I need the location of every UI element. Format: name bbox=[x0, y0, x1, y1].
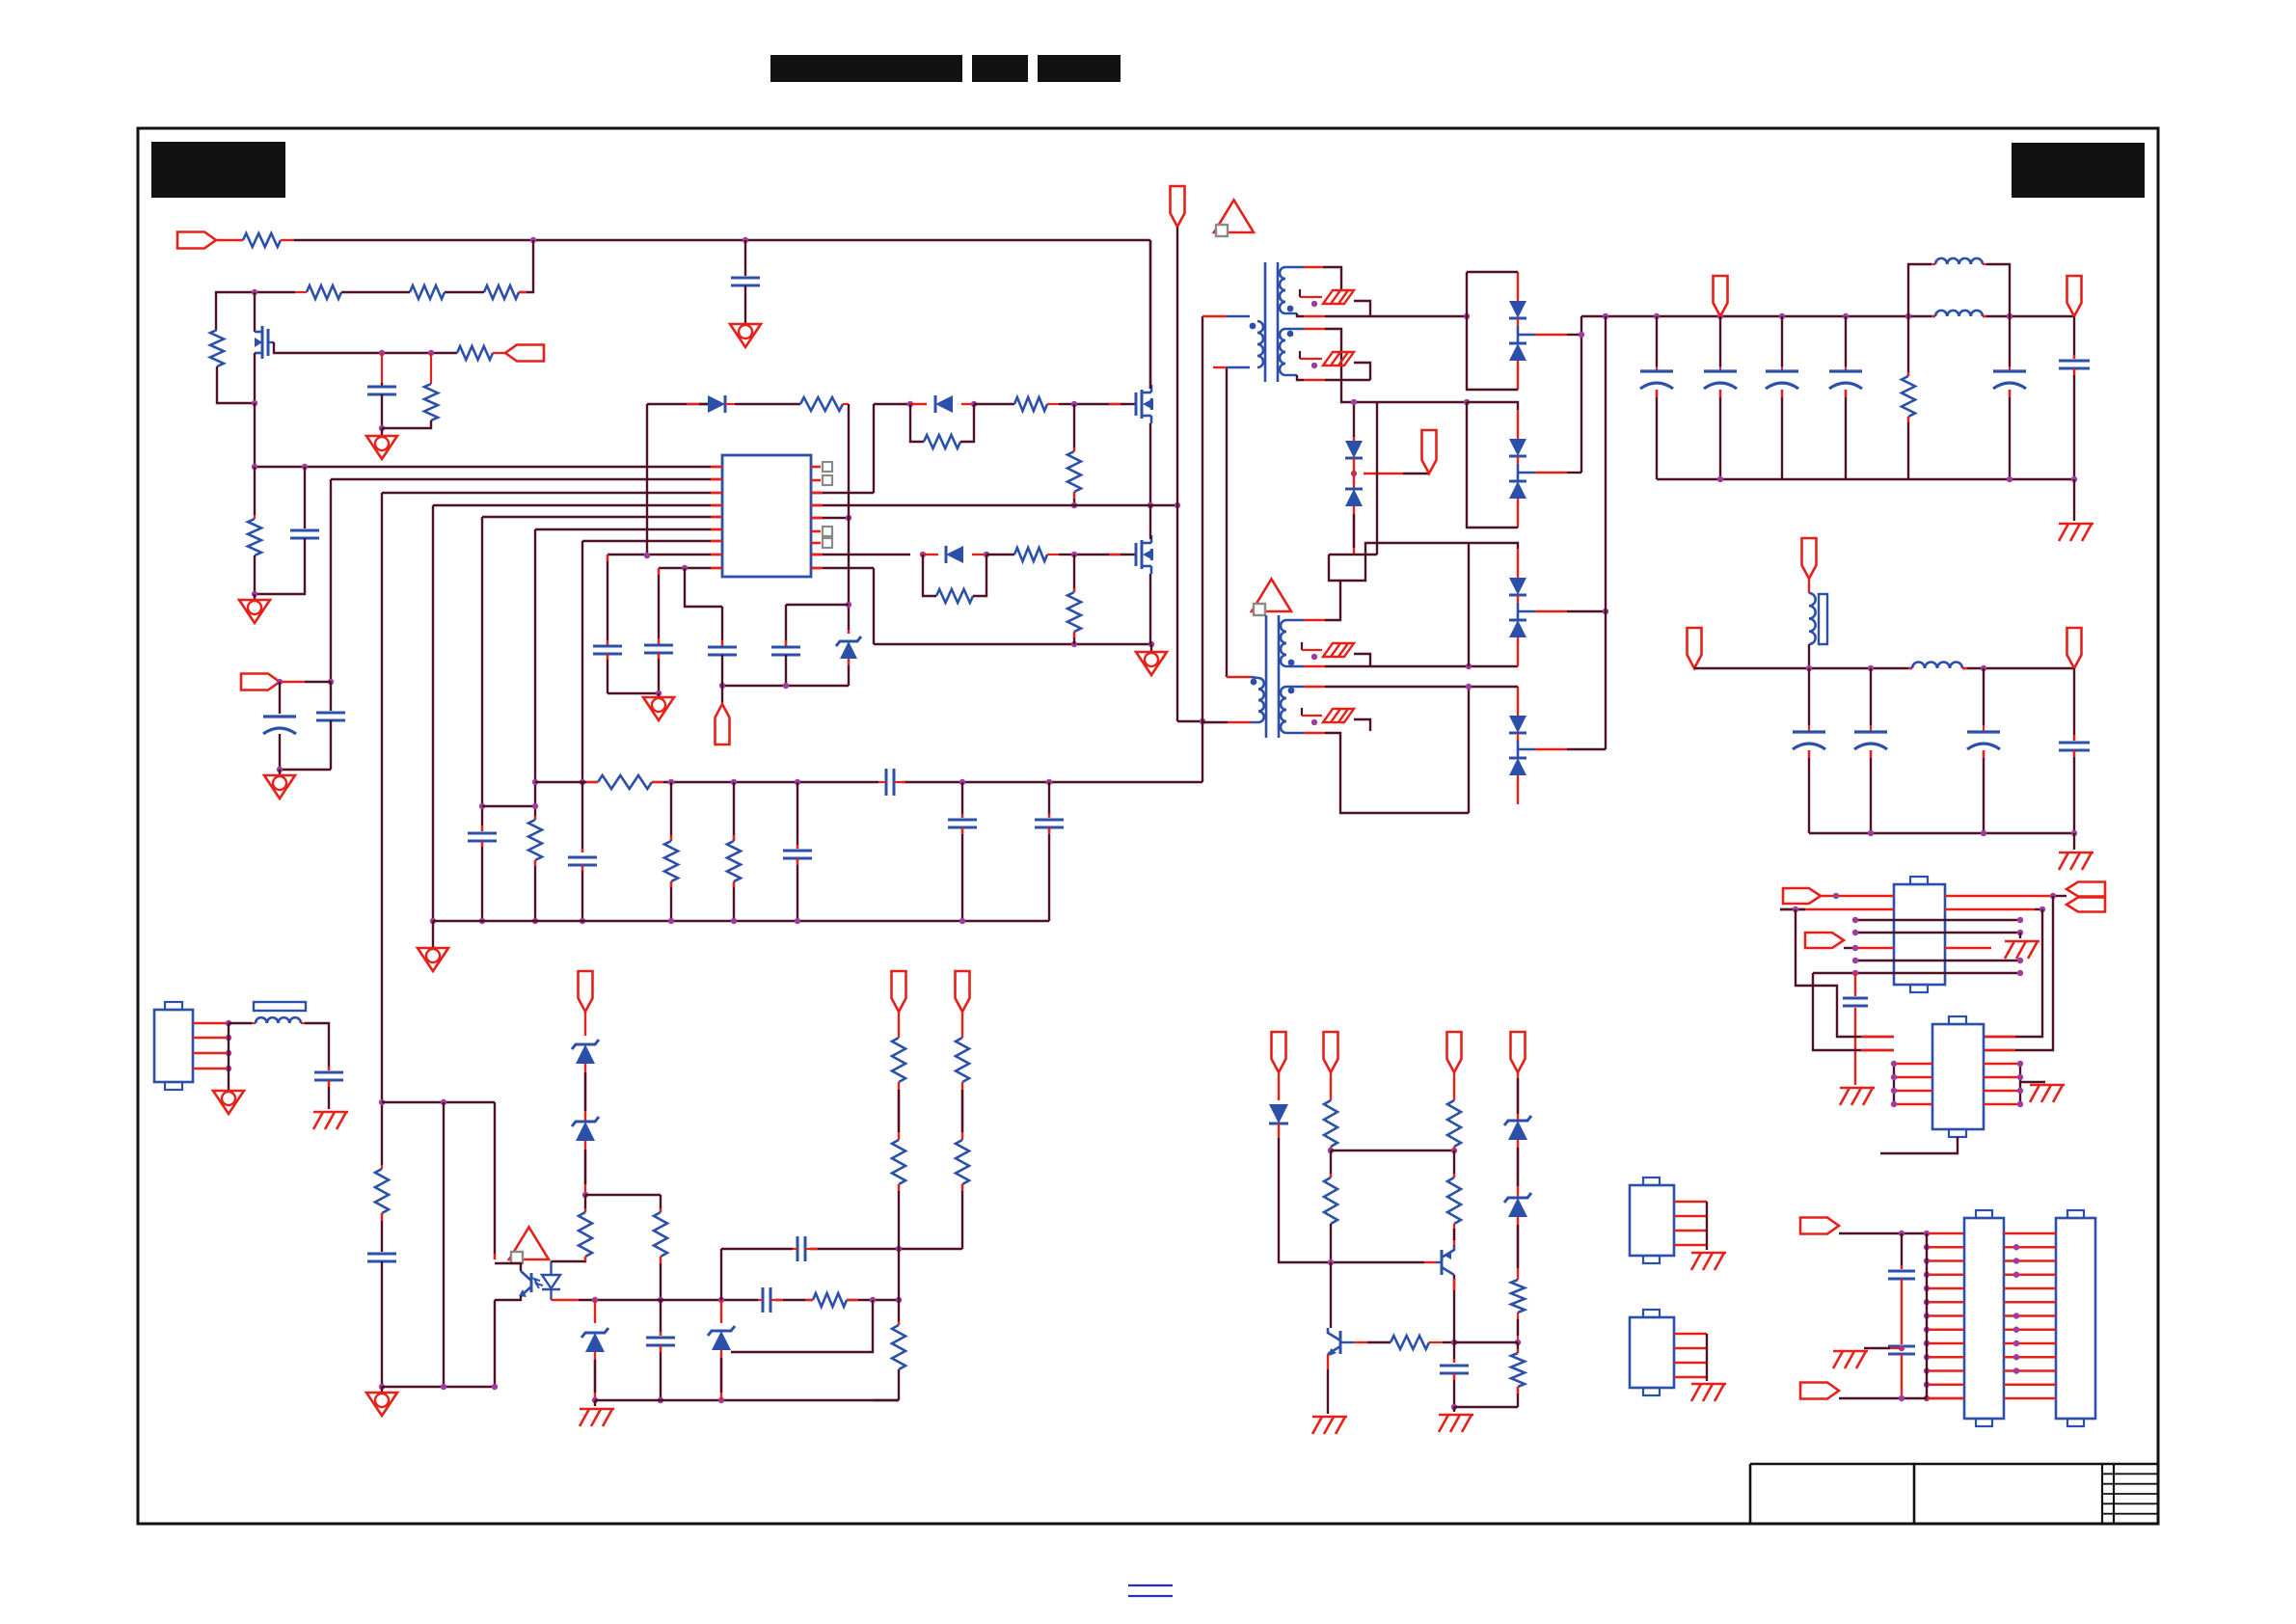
wire clamp bottom bbox=[1353, 506, 1355, 555]
wire earth drop2 bbox=[2073, 833, 2075, 850]
wire q4 collector bbox=[1453, 1275, 1455, 1342]
diode D1 bbox=[699, 395, 735, 413]
wire rail1452 bbox=[595, 1399, 899, 1401]
node v604-811 bbox=[580, 779, 585, 785]
node rail1-1784 bbox=[1717, 313, 1723, 319]
wire v513 bbox=[494, 1102, 496, 1259]
wire u2 right pins bbox=[1984, 1064, 2020, 1104]
wire v749 bbox=[721, 607, 723, 646]
wire r25 bottom bbox=[898, 1184, 900, 1249]
node u3-in1 bbox=[1833, 893, 1839, 899]
wire d1-r bbox=[735, 403, 800, 405]
wire v2095 bbox=[2020, 1064, 2045, 1104]
wire v1998 bbox=[1926, 1233, 1928, 1398]
wire u3-u2 wrap right2 bbox=[1984, 896, 2053, 1050]
node v671-576 bbox=[644, 553, 650, 558]
node flagrow bbox=[328, 679, 334, 685]
node u3r954r bbox=[2017, 917, 2023, 923]
resistor R7 vertical bbox=[424, 353, 438, 420]
wire gate1 row bbox=[874, 403, 910, 405]
connector flag OUT2 bbox=[2067, 276, 2082, 316]
node bus1348-932 bbox=[896, 1297, 902, 1303]
node r30-j bbox=[1328, 1148, 1334, 1153]
pin U1 left y589 bbox=[711, 567, 722, 570]
node ret2-2151 bbox=[2071, 830, 2077, 836]
wire q3 base link bbox=[1354, 1341, 1391, 1343]
node u3-out1 bbox=[2050, 893, 2056, 899]
capacitor CO5 bbox=[1993, 316, 2026, 479]
wire 300V rail bbox=[294, 239, 1150, 241]
node cn-1972b bbox=[1899, 1345, 1904, 1351]
wire rail2 return bbox=[1809, 832, 2074, 834]
node dz3-j bbox=[582, 1192, 588, 1198]
node c9-bot bbox=[656, 690, 662, 696]
pin U1 left y549 bbox=[711, 528, 722, 531]
capacitor C12 series bbox=[878, 769, 905, 796]
fuse F2 bbox=[1323, 352, 1354, 365]
pin U1 left y561 bbox=[711, 540, 722, 543]
wire c16 bottom bbox=[328, 1080, 330, 1109]
ground sig G2 bbox=[730, 324, 761, 347]
capacitor C10 bbox=[708, 647, 737, 655]
wire bus523 bbox=[849, 504, 1177, 506]
wire j4 pin wires bbox=[1924, 1244, 1964, 1401]
wire h1295 bbox=[721, 1248, 962, 1250]
resistor R20 vertical bbox=[375, 1169, 389, 1213]
fuse F1 bbox=[1323, 290, 1354, 304]
wire t1 sec2 bottom bbox=[1285, 375, 1370, 380]
wire v1640 taps bbox=[1580, 316, 1582, 473]
capacitor C16 bbox=[314, 1072, 343, 1080]
wire u3-u2 wrap left2 bbox=[1813, 973, 1894, 1050]
zener DZ1 bbox=[836, 636, 861, 659]
ground earth GE11 bbox=[1833, 1351, 1868, 1368]
node g2-l bbox=[920, 552, 926, 557]
resistor R22 bbox=[654, 1212, 667, 1257]
node rail1-1665 bbox=[1603, 313, 1608, 319]
wire ds4 tap bbox=[1518, 748, 1606, 751]
connector flag CN-A bbox=[1800, 1218, 1839, 1234]
node v685-1348 bbox=[658, 1297, 663, 1303]
wire u3 row967 bbox=[1855, 932, 2020, 934]
node v685-1452 bbox=[658, 1397, 663, 1403]
capacitor C14 bbox=[948, 782, 977, 921]
node h1143-460 bbox=[441, 1099, 446, 1105]
wire clamp tap bbox=[1364, 473, 1429, 474]
fuse F4 bbox=[1323, 709, 1354, 722]
connector flag FB3 bbox=[1447, 1032, 1462, 1072]
node rail-junction2 bbox=[743, 237, 748, 243]
node u3-in2 bbox=[1793, 907, 1798, 912]
pin U1 nc3 bbox=[811, 527, 832, 536]
node rail668-1194 bbox=[1148, 641, 1154, 647]
wire u3 out1 bbox=[1945, 895, 2066, 898]
wire IC bus row y549 bbox=[535, 528, 722, 530]
wire u3 en bbox=[1844, 947, 1894, 949]
wire v685 bbox=[660, 1195, 662, 1212]
wire q1 source bbox=[1149, 423, 1151, 505]
node u3r1009r bbox=[2017, 970, 2023, 976]
ground earth GE10 bbox=[1691, 1384, 1726, 1401]
wire c20 bottom bbox=[381, 1261, 383, 1387]
capacitor C5 polarized bbox=[263, 682, 296, 770]
wire v449 bbox=[432, 505, 434, 921]
node f1-dot bbox=[1311, 301, 1317, 307]
wire q4c cap bbox=[1453, 1342, 1455, 1363]
pin U1 nc4 bbox=[811, 538, 832, 548]
node u2r-1145 bbox=[2017, 1101, 2023, 1107]
node f4-dot bbox=[1311, 719, 1317, 725]
resistor R30 bbox=[1324, 1100, 1337, 1147]
ground earth GE6 bbox=[2030, 1085, 2065, 1102]
zener DZ11 bbox=[1504, 1193, 1531, 1217]
wire g1-res bbox=[974, 403, 1014, 405]
wire r6 bottom bbox=[217, 366, 255, 403]
resistor R28 bbox=[956, 1140, 969, 1184]
wire gate row bbox=[274, 342, 457, 353]
node u2r-1117 bbox=[2017, 1074, 2023, 1080]
node tap3 bbox=[1603, 609, 1608, 614]
connector J4 bbox=[1964, 1210, 2004, 1426]
resistor R24 bbox=[892, 1038, 905, 1082]
wire rail2 bbox=[1694, 667, 2074, 669]
connector flag EN bbox=[1805, 933, 1844, 948]
wire r28 bottom bbox=[961, 1184, 963, 1249]
connector flag CN-B bbox=[1800, 1383, 1839, 1399]
wire r9 bottom bbox=[534, 860, 536, 921]
wire v264 lower bbox=[254, 467, 256, 519]
capacitor C15 bbox=[1035, 782, 1064, 921]
node r35-j bbox=[1515, 1340, 1521, 1345]
node q5-bottom bbox=[252, 400, 257, 406]
node b955-761 bbox=[731, 918, 737, 924]
ground sig G1 bbox=[366, 428, 397, 459]
wire dz2-dz3 bbox=[584, 1064, 586, 1123]
wire vref drop bbox=[721, 686, 723, 704]
connector flag VCC1 bbox=[241, 674, 331, 690]
node g1-l bbox=[907, 401, 913, 407]
wire j2 gnd bbox=[1706, 1202, 1708, 1250]
wire q1 drain bbox=[1149, 240, 1151, 389]
node u3r967r bbox=[2017, 930, 2023, 935]
node c32-bot bbox=[1451, 1404, 1457, 1410]
node cn-1998 bbox=[1924, 1231, 1930, 1236]
wire clamp drop bbox=[1353, 402, 1355, 441]
warning triangle W2 bbox=[1252, 579, 1291, 615]
capacitor C23 series bbox=[793, 1236, 818, 1261]
wire v1272 primary link bbox=[1226, 367, 1228, 677]
connector flag VREF bbox=[716, 704, 730, 744]
node rail-junction bbox=[530, 237, 536, 243]
node rail1438-513 bbox=[492, 1384, 498, 1390]
transistor Q2 mosfet bbox=[1128, 535, 1153, 574]
resistor R23 bbox=[805, 1293, 858, 1307]
node j1-1108 bbox=[226, 1066, 231, 1071]
wire v396 long bbox=[381, 493, 383, 1169]
capacitor CO6 bbox=[2059, 316, 2090, 479]
wire U1 pin DRV2 bbox=[811, 554, 910, 555]
zener DZ5 bbox=[708, 1300, 735, 1400]
node dz4-bot bbox=[592, 1397, 598, 1403]
node v555-836 bbox=[532, 803, 538, 809]
wire clamp mid bbox=[1353, 458, 1355, 489]
node v555-811 bbox=[532, 779, 538, 785]
node sec4-1523 bbox=[1466, 684, 1472, 690]
wire dz10-dz11 bbox=[1517, 1140, 1519, 1199]
wire f4 stub bbox=[1302, 708, 1370, 731]
ground earth GE13 bbox=[580, 1400, 614, 1426]
wire c9 bottom bbox=[658, 653, 660, 693]
resistor R31 bbox=[1324, 1150, 1337, 1224]
wire r33 bottom bbox=[1453, 1147, 1455, 1150]
transistor Q5 startup mosfet bbox=[255, 292, 274, 403]
wire cap bottoms bbox=[280, 769, 331, 771]
node sec1-1521 bbox=[1464, 313, 1470, 319]
node bus523-1221 bbox=[1175, 502, 1180, 508]
wire l5 out bbox=[301, 1023, 329, 1070]
warning triangle W1 bbox=[1214, 200, 1254, 236]
capacitor CO1718 bbox=[1640, 316, 1673, 479]
wire c32 bottom bbox=[1453, 1373, 1455, 1407]
connector J2 bbox=[1630, 1177, 1707, 1263]
capacitor C3 bbox=[731, 278, 760, 285]
node rail2-2057 bbox=[1981, 665, 1986, 671]
zener DZ4 bbox=[581, 1300, 608, 1400]
wire u3 en right bbox=[1945, 947, 1991, 950]
wire U1 pin VS bus bbox=[811, 504, 849, 506]
resistor RO1 vertical bbox=[1902, 316, 1915, 479]
wire v1428 bbox=[1376, 402, 1378, 555]
wire h1193 bbox=[1331, 1150, 1454, 1151]
wire ds2 tap bbox=[1518, 472, 1581, 474]
node snub-761 bbox=[731, 779, 737, 785]
redacted title bar 3 bbox=[1038, 55, 1121, 82]
pin U1 left y497 bbox=[711, 478, 722, 481]
wire u3 row1009 bbox=[1813, 972, 2020, 974]
wire dz11 down bbox=[1517, 1217, 1519, 1280]
node bus1348-748 bbox=[718, 1297, 724, 1303]
capacitor C4 bbox=[290, 467, 319, 538]
wire dz3 down bbox=[584, 1141, 586, 1195]
wire v1665 bbox=[1605, 316, 1607, 749]
wire r3-r4 bbox=[445, 291, 484, 293]
diode D2 bbox=[910, 395, 974, 413]
wire c8 bottom bbox=[607, 654, 608, 693]
inductor L3 bead bbox=[1809, 579, 1827, 644]
wire j1 to L5 bbox=[229, 1022, 256, 1024]
node sec2-1521 bbox=[1464, 399, 1470, 405]
wire cn bottom bbox=[1839, 1397, 1964, 1399]
node ret2-2057 bbox=[1981, 830, 1986, 836]
wire IC bus row y536 bbox=[482, 516, 722, 518]
wire u3 row996 bbox=[1855, 960, 2020, 961]
node fb-880 bbox=[846, 515, 851, 521]
capacitor CP1940 bbox=[1854, 668, 1887, 833]
capacitor C32 bbox=[1440, 1366, 1469, 1373]
wire v748 up bbox=[720, 1249, 722, 1300]
wire v555 bbox=[534, 529, 536, 820]
wire r32 to j bbox=[1443, 1341, 1454, 1343]
diode D3 bbox=[923, 546, 986, 563]
node u3-en bbox=[1852, 945, 1858, 951]
redacted block top-right bbox=[2012, 143, 2145, 198]
transistor Q1 mosfet bbox=[1128, 385, 1153, 423]
resistor R10 bbox=[800, 397, 849, 411]
op-amp U1 pwm controller bbox=[722, 455, 811, 577]
node v396-1438 bbox=[379, 1384, 385, 1390]
wire h1239 bbox=[585, 1194, 661, 1196]
wire c7 bottom bbox=[481, 841, 483, 921]
node gate-b bbox=[428, 350, 434, 356]
wire f1 stub bbox=[1300, 289, 1370, 316]
node u3r954l bbox=[1852, 917, 1858, 923]
node mid-1247 bbox=[1200, 718, 1205, 724]
node rail668-1114 bbox=[1071, 641, 1077, 647]
wire U1 pin GND bbox=[811, 567, 874, 569]
wire r31 bottom bbox=[1330, 1224, 1332, 1262]
node bus1348-617 bbox=[592, 1297, 598, 1303]
wire r22 bottom bbox=[660, 1257, 662, 1300]
node r13-bus bbox=[1071, 502, 1077, 508]
connector flag CLAMP bbox=[1422, 430, 1437, 474]
wire t2 pri bottom bbox=[1203, 721, 1258, 723]
wire IC bus row y511 bbox=[382, 492, 722, 494]
wire fb3 drop bbox=[1453, 1072, 1455, 1100]
capacitor C20 bbox=[367, 1254, 396, 1261]
connector flag OUT5 bbox=[2067, 628, 2082, 668]
resistor R27 bbox=[956, 1038, 969, 1082]
node clamp-top bbox=[1351, 399, 1357, 405]
wire fb5 drop bbox=[898, 1012, 900, 1038]
wire fb6 drop bbox=[961, 1012, 963, 1038]
resistor R36 bbox=[1511, 1342, 1525, 1387]
wire cn gnd bbox=[1864, 1347, 1902, 1349]
capacitor C21 bbox=[646, 1300, 675, 1400]
pin U1 nc2 bbox=[811, 475, 832, 485]
wire t1 primary bottom lead bbox=[1213, 366, 1250, 368]
ground sig G4 bbox=[264, 770, 295, 798]
op-amp U2 regulator bbox=[1932, 1016, 1984, 1137]
node ret2-1940 bbox=[1868, 830, 1874, 836]
node f3-dot bbox=[1311, 654, 1317, 660]
wire v1247 primary top bbox=[1202, 316, 1203, 782]
resistor R13 vertical bbox=[1067, 404, 1081, 505]
redacted block top-left bbox=[151, 142, 285, 198]
resistor R4 bbox=[484, 285, 527, 299]
node u3r967l bbox=[1852, 930, 1858, 935]
wire v630 bbox=[607, 555, 608, 646]
wire r35 bottom bbox=[1517, 1313, 1519, 1342]
wire IC bus row y575 bbox=[608, 554, 722, 555]
node rail1-1914 bbox=[1843, 313, 1849, 319]
resistor R1 bbox=[243, 233, 294, 247]
diode D10 bbox=[1269, 1104, 1288, 1138]
ground earth GE5 bbox=[1840, 1088, 1875, 1105]
capacitor C13 bbox=[783, 782, 812, 921]
node row2-left bbox=[252, 289, 257, 295]
ground earth GE2 bbox=[2059, 853, 2093, 870]
wire cn top bbox=[1839, 1232, 1964, 1234]
wire v880 bbox=[848, 404, 850, 634]
wire h1459 bbox=[1454, 1406, 1518, 1408]
wire r7 bottom bbox=[382, 420, 431, 428]
node v500-836 bbox=[479, 803, 485, 809]
ground earth GE8 bbox=[1439, 1407, 1473, 1432]
wire earth drop bbox=[2073, 479, 2075, 521]
pin U1 left y524 bbox=[711, 504, 722, 507]
resistor R17 bbox=[586, 775, 663, 789]
diode stack DS2 bbox=[1467, 402, 1526, 528]
node rail2-1940 bbox=[1868, 665, 1874, 671]
node j1-1092 bbox=[226, 1050, 231, 1056]
resistor R34 bbox=[1447, 1150, 1461, 1224]
resistor R9 vertical bbox=[528, 820, 542, 860]
node h711-749 bbox=[719, 683, 725, 689]
node snub-696 bbox=[668, 779, 674, 785]
wire rail1438 bbox=[382, 1386, 495, 1388]
wire u3 row954 bbox=[1855, 919, 2020, 921]
node q1-s bbox=[1148, 502, 1153, 508]
wire v604 bbox=[581, 541, 583, 782]
wire rail drop to Q1 drain bbox=[1149, 240, 1151, 389]
node u2r-1103 bbox=[2017, 1061, 2023, 1067]
ground earth GE12 bbox=[313, 1112, 348, 1129]
wire u3 in2 bbox=[1780, 908, 1894, 911]
wire u2 left pins bbox=[1894, 1064, 1932, 1104]
wire g2 to gate bbox=[1059, 554, 1128, 555]
zener DZ3 bbox=[572, 1117, 599, 1141]
connector flag OUT1 bbox=[1714, 276, 1728, 316]
ground sig G7 bbox=[1136, 644, 1167, 675]
wire IC bus row y524 bbox=[433, 504, 722, 506]
wire ds1 tap bbox=[1518, 334, 1581, 337]
connector J3 bbox=[1630, 1310, 1707, 1395]
node u2l-1145 bbox=[1891, 1101, 1897, 1107]
wire IC bus row y484 bbox=[255, 466, 722, 468]
node j1-1076 bbox=[226, 1035, 231, 1041]
wire c11 bottom bbox=[785, 655, 787, 686]
wire v460 bbox=[443, 1102, 445, 1387]
wire h629 bbox=[682, 565, 722, 607]
resistor R35 bbox=[1511, 1280, 1525, 1313]
pin U1 left y511 bbox=[711, 492, 722, 495]
resistor R25 bbox=[892, 1140, 905, 1184]
capacitor C6 bbox=[316, 682, 345, 770]
wire r8 bottom bbox=[254, 555, 256, 594]
node bus1-264 bbox=[252, 464, 257, 470]
connector flag FB4 bbox=[1511, 1032, 1526, 1072]
wire h1402 loop bbox=[731, 1300, 873, 1352]
resistor R19 vertical bbox=[727, 782, 741, 921]
wire divider drop bbox=[519, 240, 533, 292]
border frame bbox=[138, 128, 2158, 1524]
connector flag IN1 bbox=[177, 232, 243, 249]
resistor R11 parallel bbox=[910, 404, 974, 448]
node g2-r bbox=[984, 552, 989, 557]
node rail1-2084 bbox=[2007, 313, 2012, 319]
capacitor C9 bbox=[644, 645, 673, 653]
wire q2 drain bbox=[1149, 505, 1151, 539]
pin U1 nc1 bbox=[811, 462, 832, 472]
redacted title bar 1 bbox=[770, 55, 962, 82]
transformer T1 bbox=[1250, 262, 1294, 382]
wire t2 sec1 bottom bbox=[1286, 665, 1518, 667]
wire j4-j5 wires bbox=[2004, 1233, 2056, 1398]
diode D5 bbox=[1345, 489, 1363, 506]
wire c3 bottom bbox=[744, 285, 746, 324]
connector flag OUT3 bbox=[1802, 538, 1817, 579]
node u3r996l bbox=[1852, 958, 1858, 963]
